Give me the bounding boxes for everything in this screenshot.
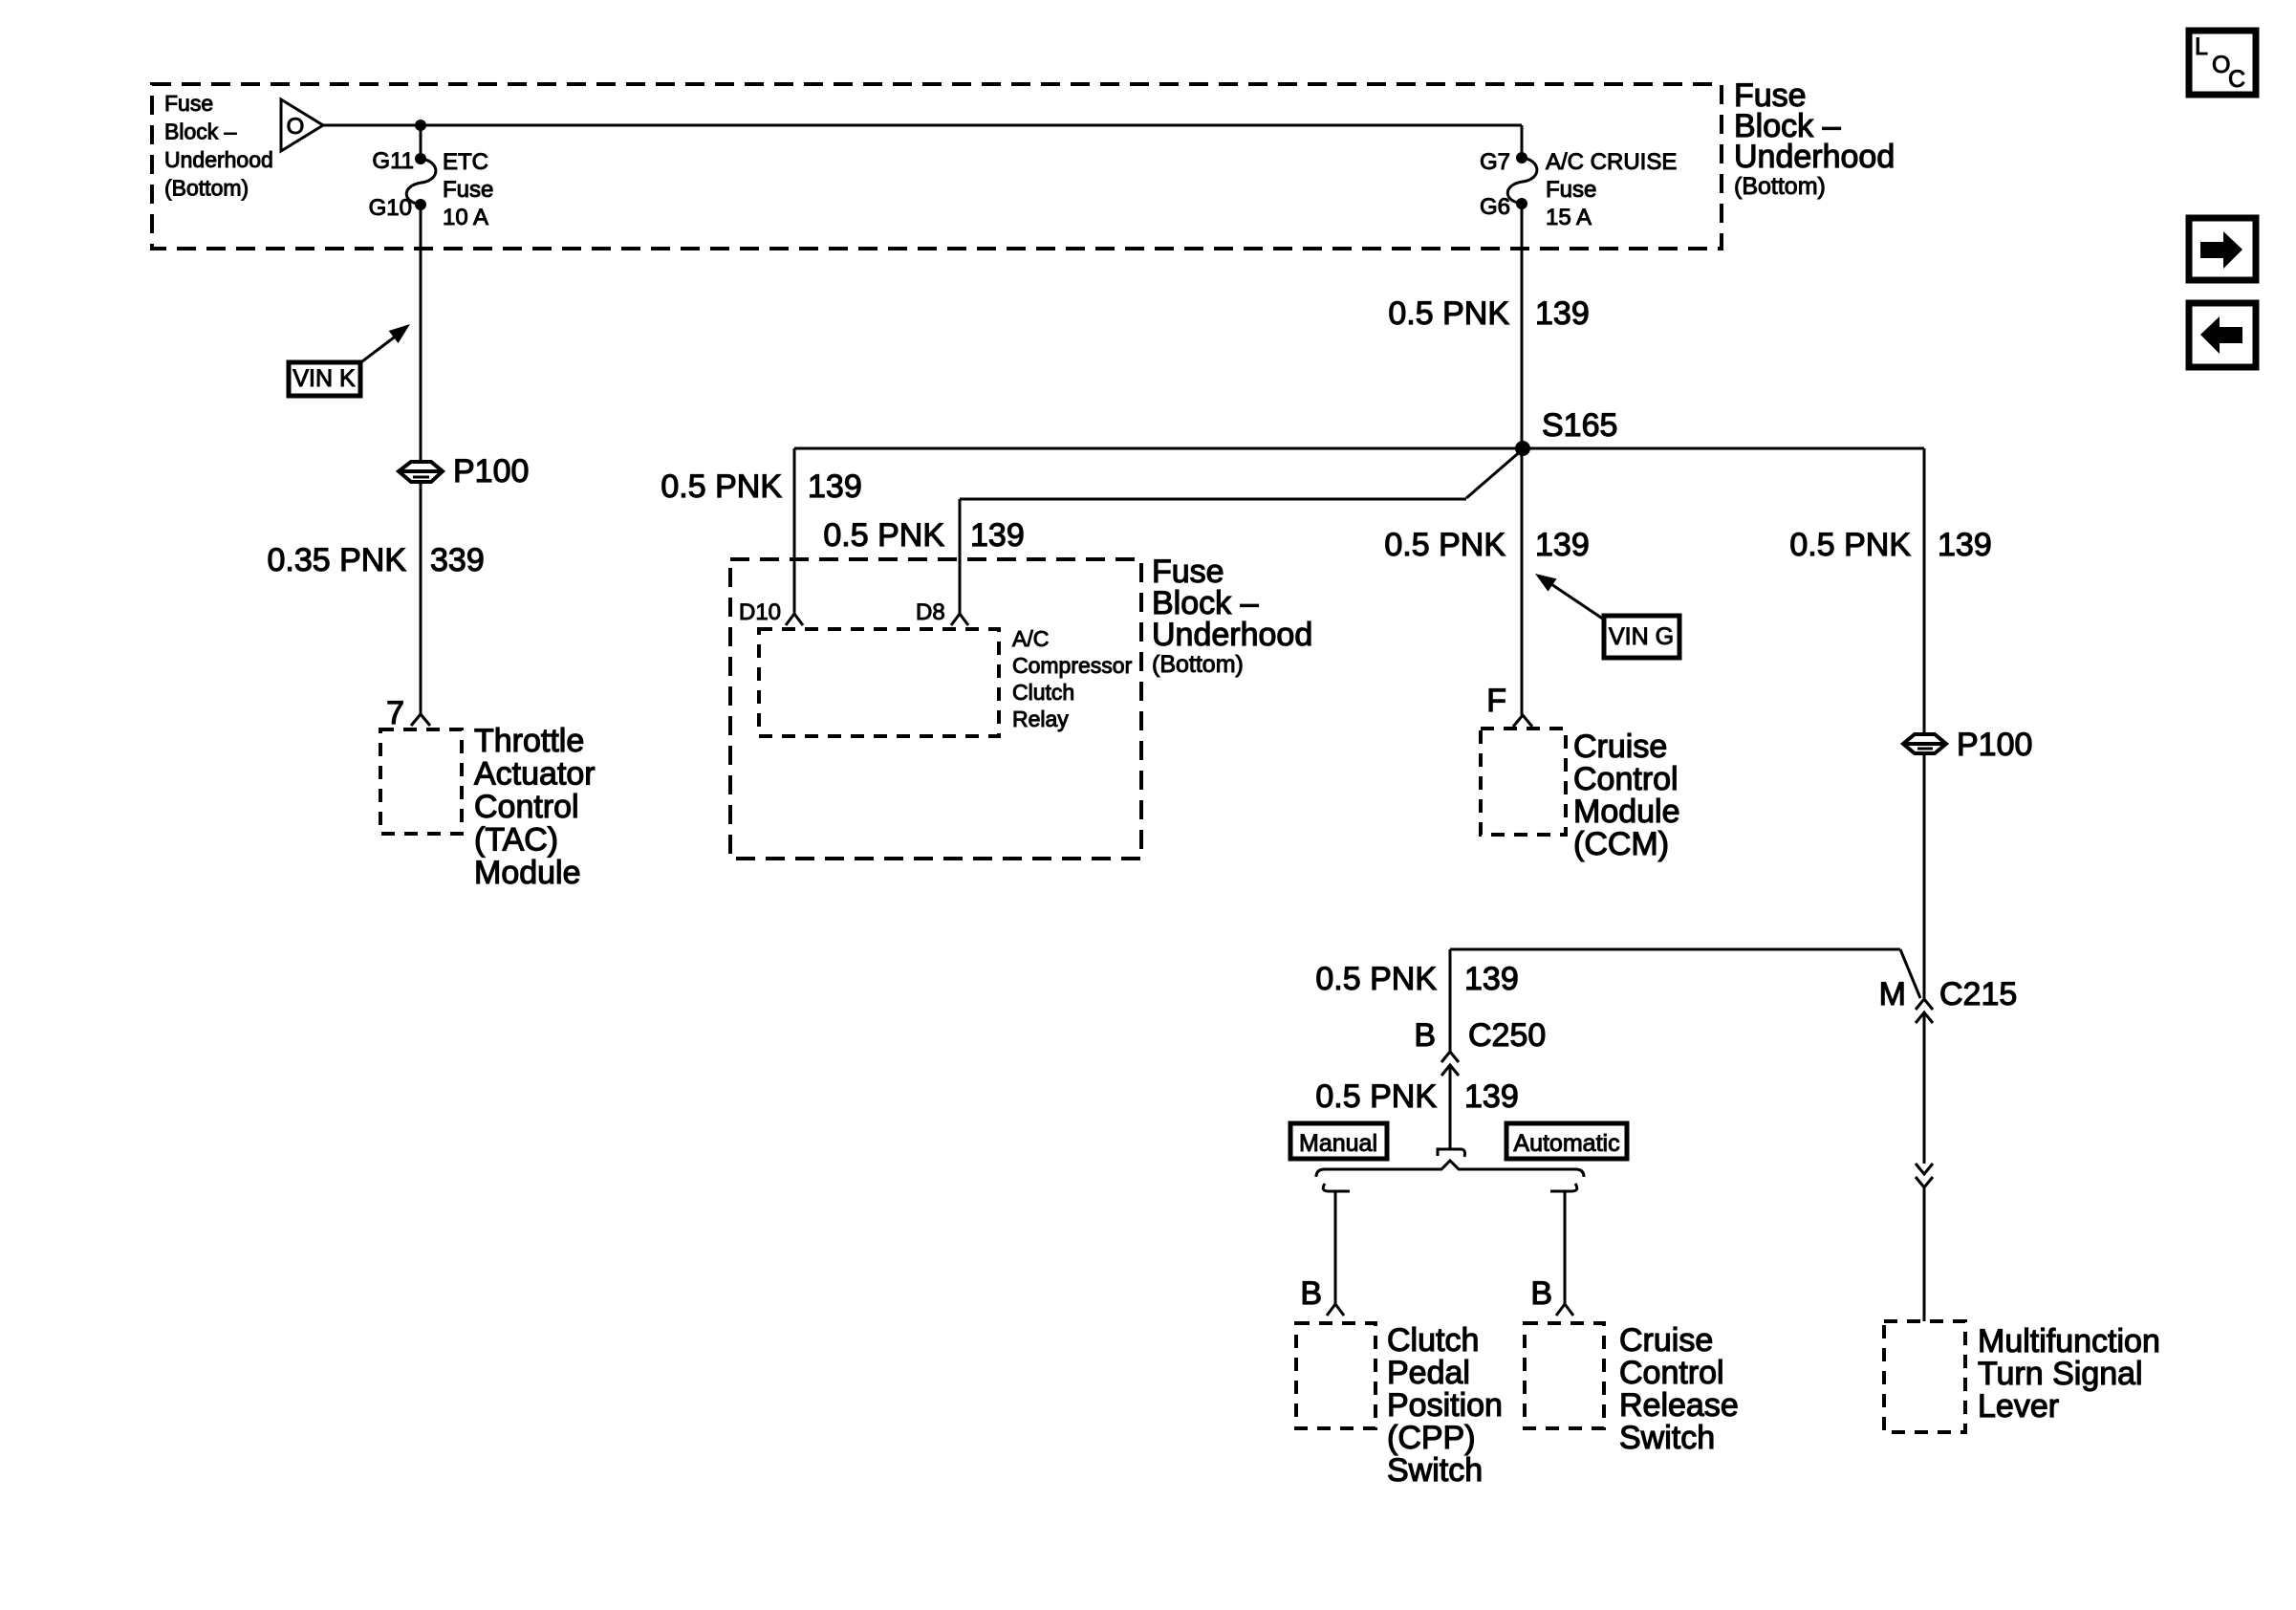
svg-text:Module: Module	[474, 855, 581, 891]
svg-text:Fuse: Fuse	[164, 91, 213, 116]
svg-text:B: B	[1530, 1275, 1552, 1312]
svg-text:Compressor: Compressor	[1012, 653, 1133, 678]
svg-text:A/C: A/C	[1012, 626, 1049, 651]
svg-text:B: B	[1414, 1017, 1436, 1054]
svg-text:Cruise: Cruise	[1573, 729, 1667, 765]
svg-text:Fuse: Fuse	[443, 177, 493, 203]
svg-text:G10: G10	[369, 195, 412, 221]
svg-text:Actuator: Actuator	[474, 756, 596, 793]
svg-text:Release: Release	[1619, 1387, 1739, 1424]
svg-text:D8: D8	[916, 599, 945, 625]
svg-text:VIN G: VIN G	[1609, 623, 1674, 650]
svg-text:339: 339	[430, 542, 485, 578]
svg-text:139: 139	[1464, 1078, 1519, 1115]
svg-text:Throttle: Throttle	[474, 723, 584, 759]
svg-text:Underhood: Underhood	[1152, 617, 1312, 653]
svg-text:Turn Signal: Turn Signal	[1978, 1356, 2143, 1392]
svg-text:P100: P100	[1957, 727, 2032, 763]
svg-text:VIN K: VIN K	[292, 365, 356, 392]
svg-text:139: 139	[1938, 527, 1992, 563]
svg-text:M: M	[1879, 976, 1906, 1012]
svg-text:A/C CRUISE: A/C CRUISE	[1546, 149, 1677, 175]
svg-text:139: 139	[808, 468, 862, 505]
svg-text:G11: G11	[372, 148, 414, 174]
svg-text:Multifunction: Multifunction	[1978, 1323, 2160, 1360]
svg-text:0.5 PNK: 0.5 PNK	[661, 468, 782, 505]
svg-text:C250: C250	[1468, 1017, 1546, 1054]
svg-text:Underhood: Underhood	[1734, 139, 1895, 175]
svg-text:L: L	[2195, 33, 2208, 60]
svg-text:Clutch: Clutch	[1012, 680, 1074, 705]
svg-text:0.5 PNK: 0.5 PNK	[1384, 527, 1505, 563]
svg-text:G6: G6	[1480, 194, 1510, 220]
svg-text:0.35 PNK: 0.35 PNK	[267, 542, 406, 578]
svg-text:Fuse: Fuse	[1546, 177, 1596, 203]
svg-text:Lever: Lever	[1978, 1388, 2059, 1425]
svg-text:G7: G7	[1480, 149, 1510, 175]
svg-text:Automatic: Automatic	[1513, 1130, 1619, 1157]
svg-text:139: 139	[1464, 961, 1519, 997]
svg-text:Clutch: Clutch	[1387, 1322, 1479, 1359]
svg-text:139: 139	[1535, 527, 1590, 563]
svg-text:0.5 PNK: 0.5 PNK	[1388, 295, 1509, 332]
svg-text:Control: Control	[1573, 761, 1679, 797]
svg-text:0.5 PNK: 0.5 PNK	[1315, 1078, 1437, 1115]
svg-text:0.5 PNK: 0.5 PNK	[1315, 961, 1437, 997]
svg-text:(Bottom): (Bottom)	[1152, 651, 1244, 678]
svg-text:(Bottom): (Bottom)	[1734, 173, 1826, 200]
svg-text:Underhood: Underhood	[164, 147, 273, 172]
svg-text:139: 139	[1535, 295, 1590, 332]
svg-text:C: C	[2228, 66, 2245, 93]
svg-text:(CPP): (CPP)	[1387, 1420, 1476, 1456]
svg-text:Manual: Manual	[1299, 1130, 1377, 1157]
svg-text:S165: S165	[1542, 407, 1617, 444]
svg-text:B: B	[1300, 1275, 1322, 1312]
svg-text:(TAC): (TAC)	[474, 822, 558, 859]
svg-text:F: F	[1486, 683, 1506, 719]
svg-text:P100: P100	[453, 453, 529, 490]
svg-text:0.5 PNK: 0.5 PNK	[1789, 527, 1911, 563]
svg-text:(CCM): (CCM)	[1573, 826, 1669, 862]
svg-text:C215: C215	[1939, 976, 2017, 1012]
svg-text:(Bottom): (Bottom)	[164, 176, 249, 201]
svg-text:Position: Position	[1387, 1387, 1503, 1424]
svg-text:139: 139	[970, 517, 1025, 554]
svg-text:ETC: ETC	[443, 149, 488, 175]
svg-text:0.5 PNK: 0.5 PNK	[823, 517, 944, 554]
svg-text:10 A: 10 A	[443, 205, 488, 230]
svg-text:7: 7	[386, 695, 404, 731]
svg-text:Switch: Switch	[1619, 1420, 1715, 1456]
svg-text:Cruise: Cruise	[1619, 1322, 1713, 1359]
svg-text:Control: Control	[1619, 1355, 1724, 1391]
svg-text:O: O	[287, 114, 305, 140]
svg-text:Relay: Relay	[1012, 707, 1069, 731]
svg-text:D10: D10	[739, 599, 781, 625]
svg-text:Control: Control	[474, 789, 579, 825]
svg-text:Module: Module	[1573, 794, 1680, 830]
svg-text:Block –: Block –	[164, 120, 237, 144]
svg-text:15 A: 15 A	[1546, 205, 1592, 230]
svg-text:Switch: Switch	[1387, 1452, 1483, 1489]
svg-text:Pedal: Pedal	[1387, 1355, 1470, 1391]
